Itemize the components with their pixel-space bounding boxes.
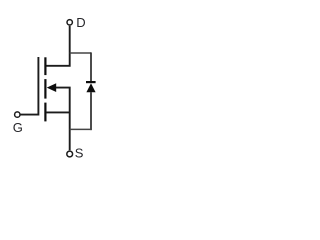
diode D1 cathode bar xyxy=(86,81,96,83)
wire diode cathode lead xyxy=(90,52,92,81)
transistor Q1 middle channel bar xyxy=(44,79,46,99)
transistor Q1 gate line xyxy=(20,57,38,115)
wire diode branch top xyxy=(70,52,91,54)
terminal G circle xyxy=(15,112,20,117)
diode D1 triangle xyxy=(86,83,95,92)
transistor Q1 bottom channel bar xyxy=(44,103,46,122)
transistor Q1 body arrow xyxy=(47,83,57,92)
terminal D circle xyxy=(67,20,72,25)
wire bottom source stub xyxy=(46,111,70,113)
wire drain vertical + top stub xyxy=(46,26,70,66)
wire middle stub to source vertical xyxy=(56,88,70,151)
transistor Q1 top channel bar xyxy=(44,57,46,75)
svg-text:S: S xyxy=(75,146,84,161)
terminal S circle xyxy=(67,151,73,157)
wire diode branch bottom xyxy=(90,92,92,130)
wire diode anode bottom xyxy=(70,128,92,130)
svg-text:G: G xyxy=(13,120,23,135)
svg-text:D: D xyxy=(76,15,85,30)
